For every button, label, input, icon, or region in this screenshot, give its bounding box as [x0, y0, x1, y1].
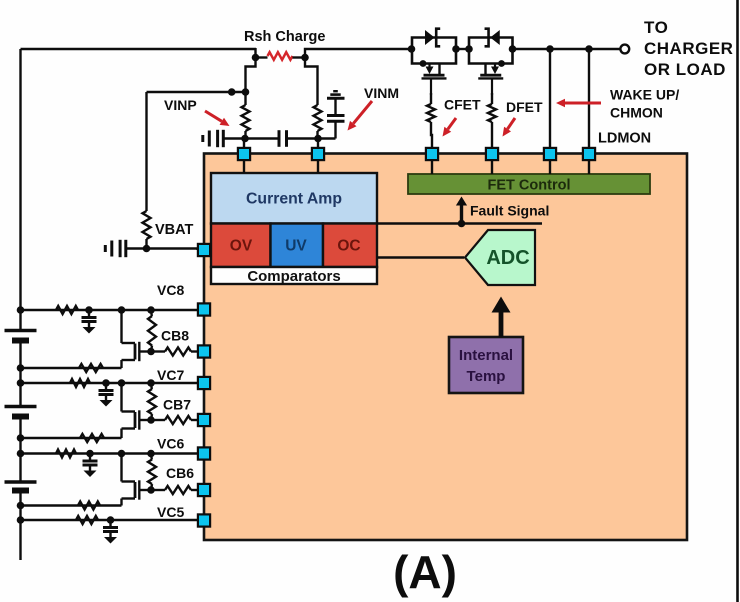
pin VINP [238, 148, 250, 160]
capacitor VC5 filter with ground [103, 520, 118, 544]
wire battery rail segment 2 [19, 341, 21, 407]
wire VC6 lower [21, 504, 122, 506]
resistor VC5 filter [76, 516, 98, 524]
resistor CB6 ladder [148, 460, 156, 485]
svg-text:OR LOAD: OR LOAD [644, 60, 726, 79]
wire top rail [21, 48, 257, 50]
capacitor C2 series [245, 130, 318, 147]
pin VC7 [198, 377, 210, 389]
resistor VC6 filter [56, 450, 76, 458]
resistor VC6 lower [78, 502, 100, 510]
ADC block [465, 230, 535, 285]
svg-text:VC7: VC7 [157, 367, 184, 383]
TO CHARGER OR LOAD label [644, 18, 733, 79]
resistor VINM sense [314, 105, 322, 131]
node VC8 rail [17, 306, 25, 314]
wire Rsh left jog [254, 48, 256, 58]
resistor CB7 [165, 416, 191, 424]
transistor Q2 discharge FET (with body diode D2) [469, 29, 513, 95]
wire VINM pin to Current Amp [317, 161, 319, 174]
svg-text:ADC: ADC [486, 247, 529, 269]
wire VBAT lower [145, 239, 147, 249]
DFET red arrow [503, 118, 516, 137]
svg-text:DFET: DFET [506, 99, 543, 115]
pin VBAT [198, 244, 210, 256]
resistor CB8 ladder [148, 316, 156, 346]
wire VC6 [21, 452, 198, 454]
node Rsh right [301, 54, 309, 62]
wire battery rail segment 3 [19, 417, 21, 483]
wire WAKEUP vertical [549, 49, 551, 148]
wire DFET gate [491, 93, 493, 104]
CFET label [444, 97, 481, 113]
CFET red arrow [443, 118, 457, 137]
node VC7 rail [17, 379, 25, 387]
wire battery rail segment 4 [19, 491, 21, 561]
CB6 label [166, 465, 194, 481]
pin VC5 [198, 514, 210, 526]
Comparators label strip [211, 267, 377, 285]
capacitor VC6 filter with ground [83, 454, 98, 478]
node sense tap A [228, 88, 236, 96]
wire LDMON pin to FET Control [588, 161, 590, 175]
svg-text:CB6: CB6 [166, 465, 194, 481]
node CB6 [147, 486, 155, 494]
resistor CB6 [165, 486, 191, 494]
wire VINP lower [244, 131, 246, 139]
wire Rsh lead right [293, 56, 306, 58]
svg-text:CB8: CB8 [161, 328, 189, 344]
wire VC8 lower [21, 367, 122, 369]
svg-text:Fault Signal: Fault Signal [470, 203, 549, 219]
node VC6 ladder tap [147, 450, 155, 458]
comparator UV block [271, 224, 324, 268]
transistor balancing FET CB6 [122, 454, 152, 506]
svg-text:(A): (A) [393, 546, 457, 598]
node VC6 lower rail [17, 502, 25, 510]
resistor CB7 ladder [148, 389, 156, 414]
wire DFET pin to FET Control [491, 161, 493, 175]
wire CB8 lead [151, 350, 165, 352]
node Q2 left [465, 45, 473, 53]
wire CB7 ladder leads [151, 383, 152, 420]
Current Amp block [211, 173, 377, 224]
svg-text:CFET: CFET [444, 97, 481, 113]
resistor CB8 [165, 348, 191, 356]
capacitor C3 with ground (VINM side) [318, 91, 345, 138]
resistor DFET gate [488, 104, 496, 122]
node VC6 cap [86, 450, 94, 458]
LDMON label [598, 131, 651, 147]
wire CB7 lead [151, 419, 165, 421]
wire WAKEUP pin to FET Control [549, 161, 551, 175]
wire Rsh left branch [246, 58, 256, 106]
wire CFET gate lower [431, 122, 432, 148]
node VC8 ladder tap [147, 306, 155, 314]
svg-text:UV: UV [285, 238, 307, 255]
node VINP [241, 135, 249, 143]
wire Q1-Q2 link [456, 48, 469, 50]
battery B1 [5, 331, 37, 341]
transistor Q1 charge FET (with body diode D1) [412, 29, 456, 95]
node VC6 rail [17, 450, 25, 458]
wire CFET pin to FET Control [431, 161, 433, 175]
svg-text:Temp: Temp [467, 368, 506, 385]
node VC5 rail [17, 516, 25, 524]
wire battery rail segment 1 [19, 49, 21, 331]
resistor VC7 filter [70, 379, 90, 387]
resistor CFET gate [427, 104, 435, 122]
comparator OV block [211, 224, 271, 268]
wire VINM lower [316, 131, 318, 139]
VC8 label [157, 282, 184, 298]
wire CB6 to pin [191, 489, 198, 491]
caption (A) [393, 546, 457, 598]
wire Rsh right branch [305, 58, 318, 106]
svg-text:VC8: VC8 [157, 282, 184, 298]
wire FET output rail [513, 48, 621, 50]
node WAKEUP tap [546, 45, 554, 53]
resistor VINP sense [242, 105, 250, 131]
capacitor C4 with ground (VBAT) [105, 240, 146, 257]
node VINM [314, 135, 322, 143]
fault signal wire [377, 222, 542, 224]
svg-text:Comparators: Comparators [247, 268, 340, 285]
wire VC8 [21, 309, 198, 311]
transistor balancing FET CB8 [122, 310, 152, 368]
Internal Temp block [449, 337, 523, 393]
wire VC5 [21, 519, 198, 521]
wire VINM pin drop [317, 139, 319, 148]
WAKE UP/CHMON label [610, 87, 679, 121]
wire VINP pin to Current Amp [243, 161, 245, 174]
wire CB7 to pin [191, 419, 198, 421]
svg-text:Current Amp: Current Amp [246, 191, 342, 208]
DFET label [506, 99, 543, 115]
battery B3 [5, 482, 37, 491]
fault signal arrow [456, 197, 467, 224]
svg-text:OV: OV [230, 238, 253, 255]
node LDMON tap [585, 45, 593, 53]
pin VC8 [198, 303, 210, 315]
WAKE UP red arrow [556, 99, 601, 107]
svg-text:VBAT: VBAT [155, 222, 194, 238]
node fault junction [458, 220, 466, 228]
node VC8 lower rail [17, 364, 25, 372]
wire VC7 lower [21, 437, 122, 439]
capacitor C1 with ground (VINP side) [203, 130, 245, 147]
resistor VC8 filter [56, 306, 78, 314]
node VC6 FET tap [118, 450, 126, 458]
wire VINP sense tap [147, 91, 246, 93]
node VC7 ladder tap [147, 379, 155, 387]
VC5 label [157, 504, 184, 520]
svg-text:FET Control: FET Control [488, 178, 571, 194]
VINP red arrow [205, 111, 230, 126]
wire VINP pin drop [243, 139, 245, 148]
wire DFET gate lower [491, 122, 493, 148]
CB8 label [161, 328, 189, 344]
svg-text:CHMON: CHMON [610, 105, 663, 121]
node VC5 cap [107, 516, 115, 524]
wire CB8 ladder leads [151, 310, 152, 352]
wire Rsh right jog [305, 49, 412, 58]
wire VBAT upper [145, 92, 147, 211]
node VC7 cap [102, 379, 110, 387]
node Rsh left [252, 54, 260, 62]
pin CFET [426, 148, 438, 160]
node CB8 [147, 348, 155, 356]
Fault Signal label [470, 203, 549, 219]
pin LDMON [583, 148, 595, 160]
FET Control block [408, 174, 650, 194]
node VC7 lower rail [17, 434, 25, 442]
svg-text:Internal: Internal [459, 347, 513, 364]
transistor balancing FET CB7 [122, 383, 152, 438]
resistor VC7 lower [80, 434, 104, 442]
pin WAKEUP [544, 148, 556, 160]
node VC8 cap [85, 306, 93, 314]
VINM label [364, 85, 399, 101]
pin CB6 [198, 484, 210, 496]
VC6 label [157, 436, 184, 452]
svg-text:VC6: VC6 [157, 436, 184, 452]
CB7 label [163, 397, 191, 413]
svg-text:LDMON: LDMON [598, 131, 651, 147]
svg-text:CHARGER: CHARGER [644, 39, 733, 58]
resistor Rsh (red) [268, 52, 293, 60]
VINP label [164, 97, 197, 113]
VC7 label [157, 367, 184, 383]
pin CB8 [198, 345, 210, 357]
node CB7 [147, 416, 155, 424]
pin VC6 [198, 447, 210, 459]
capacitor VC7 filter with ground [99, 383, 114, 407]
battery B2 [5, 407, 37, 417]
ADC input wire [377, 256, 464, 258]
wire CFET gate [430, 93, 432, 104]
IC body (orange block) [204, 154, 687, 541]
node Q1 right [452, 45, 460, 53]
node Q1 left [408, 45, 416, 53]
svg-text:TO: TO [644, 18, 668, 37]
resistor VC8 lower [79, 364, 103, 372]
terminal to charger (open circle) [620, 45, 629, 54]
pin DFET [486, 148, 498, 160]
resistor VBAT [143, 211, 151, 239]
node VC7 FET tap [118, 379, 126, 387]
svg-text:VINM: VINM [364, 85, 399, 101]
node VC8 FET tap [118, 306, 126, 314]
comparator OC block [323, 224, 377, 268]
node Q2 right [509, 45, 517, 53]
wire CB6 lead [151, 489, 165, 491]
wire CB6 ladder leads [151, 454, 152, 491]
node VBAT [143, 245, 151, 253]
svg-text:OC: OC [337, 238, 360, 255]
wire VC7 [21, 382, 198, 384]
pin CB7 [198, 414, 210, 426]
svg-text:Rsh Charge: Rsh Charge [244, 29, 325, 45]
node sense tap B [242, 88, 250, 96]
svg-text:VINP: VINP [164, 97, 197, 113]
svg-text:VC5: VC5 [157, 504, 184, 520]
wire Rsh lead left [256, 56, 268, 58]
Rsh Charge label [244, 29, 325, 45]
Internal Temp to ADC arrow [492, 297, 511, 338]
capacitor VC8 filter with ground [82, 310, 97, 334]
svg-text:CB7: CB7 [163, 397, 191, 413]
VINM red arrow [348, 101, 373, 131]
wire CB8 to pin [191, 350, 198, 352]
right page border [736, 0, 739, 602]
pin VINM [312, 148, 324, 160]
svg-text:WAKE UP/: WAKE UP/ [610, 87, 679, 103]
wire LDMON vertical [588, 49, 590, 148]
VBAT label [155, 222, 194, 238]
wire VBAT to pin [147, 249, 198, 251]
